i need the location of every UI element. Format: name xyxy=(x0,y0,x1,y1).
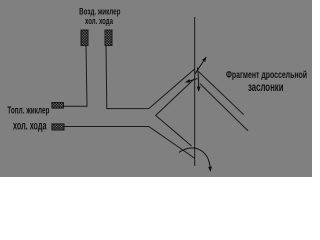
svg-text:хол. хода: хол. хода xyxy=(85,16,113,27)
carburetor wall (vertical line) xyxy=(194,17,196,166)
throttle plate edge line 2 xyxy=(200,84,248,131)
svg-text:заслонки: заслонки xyxy=(248,80,284,94)
curved flow arrow around throttle bottom xyxy=(179,148,210,171)
flow arrow down through gap xyxy=(197,68,198,92)
svg-text:Топл. жиклер: Топл. жиклер xyxy=(7,104,49,116)
throttle plate edge line 1 xyxy=(199,72,244,115)
fuel jet B (hatched rect) xyxy=(52,124,64,130)
flow arrow up-right past throttle gap xyxy=(195,57,206,74)
wedge between ports (inner walls) xyxy=(156,79,195,147)
wire: air jet J2 down, elbow right, diagonal up to wall apex xyxy=(106,46,195,109)
flow arrow into upper port (pointing left) xyxy=(186,79,198,83)
wire: fuel jet B right, diagonal down to wall xyxy=(64,127,194,159)
fuel jet A (hatched rect) xyxy=(52,103,64,109)
wire: air jet J1 down, elbow left to fuel jet A xyxy=(64,46,87,107)
air jet J2 (hatched rect) xyxy=(105,30,112,46)
air jet J1 (hatched rect) xyxy=(81,30,88,46)
svg-text:хол. хода: хол. хода xyxy=(13,118,47,132)
